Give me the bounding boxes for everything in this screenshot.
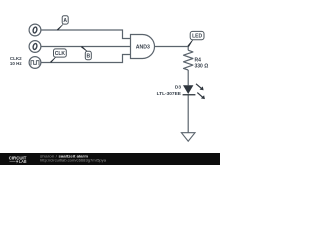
- svg-text:10 Hz: 10 Hz: [10, 61, 23, 66]
- node label B: [81, 46, 91, 60]
- svg-text:AND3: AND3: [136, 45, 150, 51]
- svg-text:LED: LED: [192, 34, 202, 40]
- wire net A (source V1 to AND3 input 1): [41, 30, 131, 39]
- clock source CLK2 10 Hz: [29, 57, 41, 69]
- op: AND3 gate U1: [131, 35, 155, 59]
- digital source V2 (logic 0): [29, 41, 41, 53]
- svg-text:CLK: CLK: [55, 51, 66, 57]
- watermark bar: [0, 153, 220, 165]
- wire net LED (AND3 output to resistor R4): [155, 47, 189, 51]
- svg-text:R4: R4: [195, 57, 202, 63]
- digital source V1 (logic 0): [29, 24, 41, 36]
- ground: [181, 133, 195, 142]
- node label CLK: [50, 49, 66, 63]
- svg-text:330 Ω: 330 Ω: [195, 64, 209, 70]
- svg-text:http://circuitlab.com/c6683g7m: http://circuitlab.com/c6683g7mr5pya: [40, 158, 107, 162]
- svg-text:LTL-307EE: LTL-307EE: [157, 91, 182, 97]
- node label LED: [188, 31, 205, 47]
- wire R4 to D3: [187, 70, 189, 85]
- resistor R4: [184, 50, 209, 70]
- svg-text:D3: D3: [175, 84, 181, 90]
- wire D3 to ground: [187, 95, 189, 133]
- svg-text:B: B: [86, 54, 90, 60]
- wire net B (source V2 to AND3 input 2): [41, 46, 131, 48]
- LED D3 LTL-307EE: [157, 84, 205, 99]
- svg-text:A: A: [63, 18, 67, 24]
- label CLK2 10 Hz text: [10, 56, 23, 66]
- node label A: [57, 16, 68, 31]
- svg-text:LAB: LAB: [19, 159, 27, 164]
- wire net CLK (clock CLK2 to AND3 input 3): [41, 55, 131, 63]
